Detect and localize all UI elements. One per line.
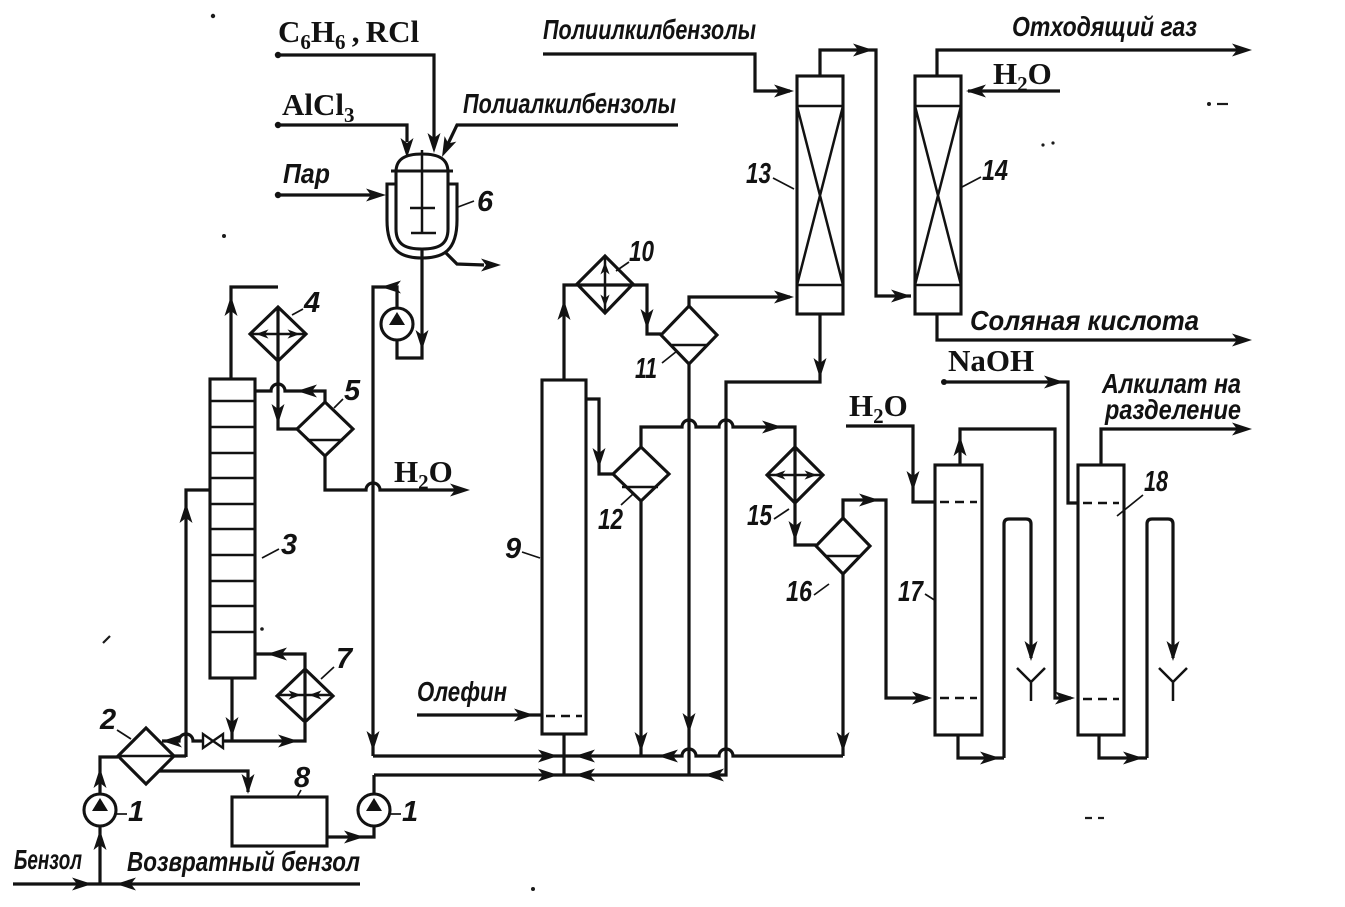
label 17 [898,576,936,608]
wire separator S11 top to column C13 [689,291,794,307]
label 2 [99,704,131,739]
wire pump P1b discharge riser [372,775,375,794]
wire column C17 bottoms to seal loop [958,519,1038,765]
label 11 [635,351,677,385]
svg-text:2: 2 [99,704,116,736]
wire column C17 overhead to column C18 feed [954,429,1076,705]
svg-text:3: 3 [281,529,297,561]
label 18 [1117,466,1169,516]
wire water feed to column C14 [966,85,1060,98]
column C14 HCl absorber shell [915,76,961,314]
svg-text:12: 12 [598,504,623,536]
wire column C3 overhead to exchanger E4 [225,287,279,379]
wire separator S11 bottom downcomer to lower header [683,364,696,775]
label 12 [598,494,633,536]
svg-text:Олефин: Олефин [417,676,507,707]
wire column C3 bottoms downcomer [226,678,239,741]
svg-text:16: 16 [786,576,813,608]
wire polyalkylbenzenes to reactor [436,125,678,160]
separator S11 [661,306,717,364]
label 4 [292,287,320,319]
svg-text:15: 15 [747,500,773,532]
wire NaOH feed to column C18 [941,376,1078,504]
column C3 benzene drying column shell [210,379,255,678]
svg-text:11: 11 [635,353,657,385]
wire pump P1a suction from benzene header [94,826,107,884]
reactor U1 stirrer [410,150,436,234]
label 10 [616,236,654,271]
label 8 [294,762,311,797]
svg-text:AlCl3: AlCl3 [282,87,355,127]
wire exchanger E15 to separator S16 [789,503,817,545]
svg-text:Бензол: Бензол [14,844,82,875]
separator S5 [297,402,353,456]
wire pump P1a discharge to mixer M2 [94,757,119,794]
wire polyalkylbenzenes feed to column C13 [543,54,794,98]
separator S16 [816,518,870,574]
column C18 alkali wash column shell [1078,465,1124,735]
wire tank T8 outlet to pump P1b [327,827,374,844]
svg-text:9: 9 [505,533,521,565]
wire water feed to column C17 [846,426,935,502]
wire column C13 overhead to column C14 bottom [820,44,911,303]
reactor U1 jacket [387,184,457,258]
wire exchanger E10 to separator S11 [633,285,661,334]
wire upper recycle header [373,749,843,763]
tank T8 return benzene drum [232,797,327,846]
heat exchanger E10 condenser [577,256,633,313]
wire separator S5 bottom water outlet [325,456,470,497]
svg-text:Отходящий газ: Отходящий газ [1012,11,1197,42]
wire column C13 bottoms to lower header and pump P1b riser [374,314,827,782]
wire mixer M2 outlet to tank T8 [159,771,255,794]
svg-text:Возвратный бензол: Возвратный бензол [127,846,360,877]
wire reboiler circuit line with valve bypass [162,723,305,748]
svg-text:Пар: Пар [283,158,330,189]
wire column C14 overhead off-gas [937,44,1252,77]
svg-text:C6H6 , RCl: C6H6 , RCl [278,14,419,54]
mixer M2 [118,728,174,784]
heat exchanger E7 reboiler [277,669,333,722]
funnel drain left [1017,668,1045,701]
pump P1 (reactor circulation pump) [381,308,413,340]
label 13 [746,158,794,190]
column C17 water wash column shell [935,465,982,735]
separator S12 [613,447,669,501]
valve V1 [203,734,223,748]
svg-text:18: 18 [1144,466,1169,498]
svg-text:Полиалкилбензолы: Полиалкилбензолы [463,88,676,119]
wire column C18 overhead alkylate outlet [1101,423,1252,466]
pump P1a fresh benzene pump [84,794,116,826]
wire separator S16 top to column C17 feed [843,494,932,705]
svg-text:13: 13 [746,158,771,190]
svg-text:4: 4 [303,287,320,319]
column C9 liquid level dashed [546,715,582,718]
node Алкилат на разделение (alkylate to separation label) [1101,368,1241,425]
stray speck marks [211,14,1211,891]
pump P1b return benzene pump [358,794,390,826]
svg-text:Соляная кислота: Соляная кислота [970,305,1199,336]
label 1 left [114,796,144,828]
wire column C14 bottoms hydrochloric acid outlet [937,314,1252,347]
wire pump discharge to recycle downcomer [367,281,402,757]
svg-text:10: 10 [629,236,654,268]
wire column C9 side draw to separator S12 [586,399,613,474]
svg-text:1: 1 [128,796,144,828]
wire reactor side outlet [445,252,501,272]
wire reactor bottom outlet to pump [397,249,429,358]
wire column C9 bottoms junction [562,734,565,775]
label 5 [334,375,361,408]
svg-text:7: 7 [336,643,354,675]
svg-text:NaOH: NaOH [948,343,1034,378]
heat exchanger E15 cooler [767,447,823,503]
wire separator S5 top to column C3 reflux [255,384,325,403]
label 16 [786,576,829,608]
label 6 [458,186,494,218]
label 1 right [388,796,418,828]
heat exchanger E4 [250,307,306,361]
reactor U1 vessel body [391,154,453,249]
wire column C9 overhead riser to exchanger E10 [558,285,578,380]
wire AlCl3 feed to reactor [275,122,414,158]
svg-text:14: 14 [982,155,1008,187]
label 9 [505,533,540,565]
wire separator S12 top to exchanger E15 [641,420,795,447]
wire benzene supply header [13,878,360,891]
wire column C18 bottoms to seal loop [1099,519,1180,765]
wire separator S12 bottom downcomer to upper header [635,501,648,756]
svg-text:1: 1 [402,796,418,828]
wire C6H6 feed to reactor [275,52,441,153]
svg-text:5: 5 [344,375,361,407]
svg-text:разделение: разделение [1104,394,1241,425]
label 3 [262,529,297,561]
wire separator S16 bottom recycle downcomer [837,574,850,756]
label 7 [321,643,354,679]
svg-text:6: 6 [477,186,494,218]
wire olefin feed to column C9 [417,709,542,722]
funnel drain right [1159,668,1187,701]
svg-text:Полиилкилбензолы: Полиилкилбензолы [543,14,756,45]
column C3 trays [210,401,255,632]
svg-text:8: 8 [294,762,311,794]
label 15 [747,500,789,532]
svg-text:17: 17 [898,576,924,608]
label 14 [962,155,1008,187]
wire steam to reactor jacket [275,189,386,202]
wire benzene feed riser to column C3 [174,490,210,757]
wire reboiler E7 return to column C3 [255,648,305,670]
column C13 HCl absorber shell [797,76,843,314]
column C9 alkylation reactor column shell [542,380,586,734]
wire exchanger E4 to separator S5 [272,361,298,429]
